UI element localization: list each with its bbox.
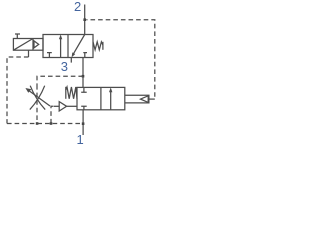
node junction triangle feed — [50, 122, 53, 125]
throttle RV1 arrow — [29, 91, 50, 106]
spring V2 left — [65, 87, 67, 99]
wire pilot dashed top to right — [86, 20, 155, 99]
valve V2 right-box flow arrow — [110, 90, 112, 109]
solenoid T vent — [15, 34, 20, 39]
pilot triangle V2 left — [59, 102, 66, 111]
wire port3 stub — [70, 58, 72, 63]
wire dashed through throttle — [36, 85, 38, 124]
wire solenoid drain — [28, 50, 30, 57]
svg-text:2: 2 — [74, 0, 81, 14]
pilot box V2 right — [125, 95, 149, 103]
valve V1 left-box flow arrow — [60, 38, 62, 58]
valve V1 left-box blocked port — [47, 53, 52, 58]
wire port2 riser — [84, 5, 86, 35]
valve V2 body — [77, 87, 125, 109]
solenoid S1 divider — [32, 39, 34, 51]
wire main line between valves — [82, 58, 84, 88]
valve V2 divider — [100, 87, 102, 109]
wire pilot dashed left loop — [7, 57, 29, 124]
solenoid S1 diagonal — [13, 39, 33, 51]
valve V2 left-box blocked port top — [81, 87, 87, 92]
valve V1 body — [43, 35, 93, 58]
valve V1 right-box blocked port — [83, 53, 87, 58]
node junction throttle bottom — [36, 122, 39, 125]
wire pilot dashed mid branch — [37, 76, 83, 85]
spring V1 right — [93, 42, 103, 50]
solenoid S1 box — [13, 39, 43, 51]
node junction on port2 riser — [83, 18, 86, 21]
wire pilot stub right valve — [149, 98, 155, 100]
wire triangle to valve — [67, 105, 77, 107]
throttle RV1 arcs — [30, 86, 45, 110]
wire triangle feed riser — [51, 106, 56, 123]
wire pilot dashed bottom — [7, 123, 83, 125]
pilot triangle V2 right — [141, 96, 149, 103]
wire into pilot triangle — [54, 105, 59, 107]
svg-text:3: 3 — [61, 59, 68, 74]
node junction port1 — [82, 122, 85, 125]
valve V2 left-box blocked port bottom — [81, 106, 87, 110]
wire port1 drop — [82, 110, 84, 135]
valve V1 right-box diagonal arrow — [73, 35, 85, 55]
node junction mid — [82, 75, 85, 78]
valve V1 divider — [67, 35, 69, 58]
pilot triangle S1 — [34, 41, 39, 48]
